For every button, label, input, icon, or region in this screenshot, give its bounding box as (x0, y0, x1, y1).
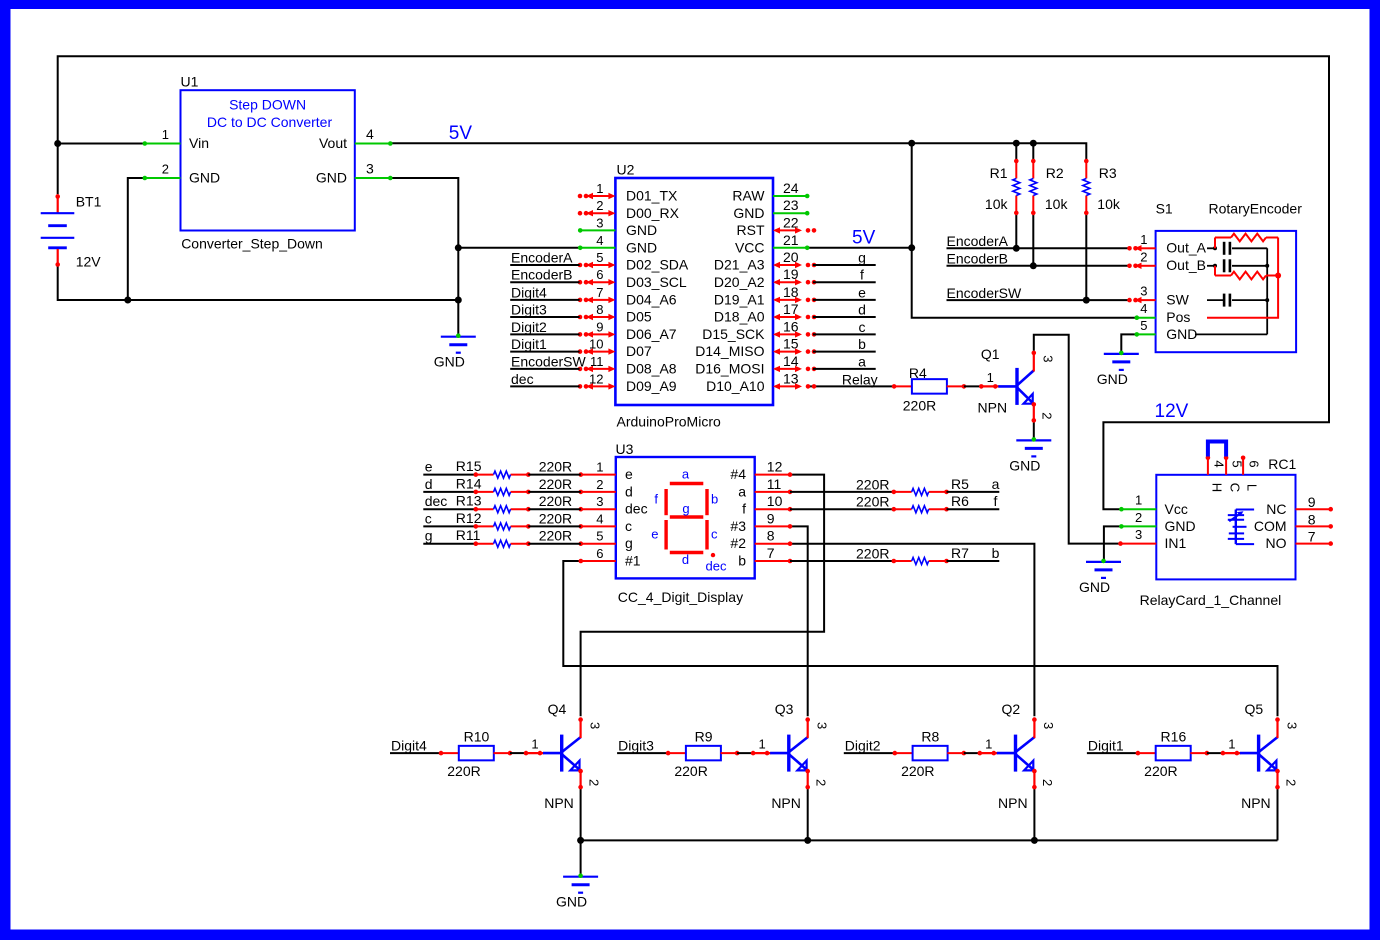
U2 pin 7 D04_A6 (588, 299, 613, 301)
svg-text:SW: SW (1166, 292, 1189, 308)
svg-text:5V: 5V (852, 228, 876, 249)
wire EncoderSW to S1 (947, 299, 1131, 301)
node U2 pin4 GND tap (455, 244, 462, 251)
svg-text:220R: 220R (539, 528, 572, 544)
net label f at U2 pin 19 (813, 281, 876, 283)
7-segment glyph segment f (664, 489, 667, 515)
svg-text:c: c (859, 319, 866, 335)
net label c at U2 pin 16 (813, 333, 876, 335)
svg-text:L: L (1245, 484, 1260, 491)
7-segment glyph segment g (670, 515, 704, 518)
net label d into R14 (423, 491, 476, 493)
svg-text:1: 1 (1135, 493, 1142, 508)
svg-text:BT1: BT1 (76, 194, 102, 210)
U2 pin 24 RAW (773, 195, 807, 197)
svg-text:5V: 5V (449, 123, 473, 144)
U2 pin 19 D20_A2 (775, 281, 800, 283)
ground under RC1 (1086, 561, 1121, 563)
svg-text:10: 10 (767, 493, 783, 509)
node R3-EncoderSW junction (1083, 297, 1090, 304)
U2 pin 3 GND (580, 229, 615, 231)
svg-text:NPN: NPN (771, 795, 801, 811)
svg-text:RelayCard_1_Channel: RelayCard_1_Channel (1140, 592, 1282, 608)
svg-text:VCC: VCC (735, 239, 765, 255)
svg-text:Relay: Relay (842, 371, 878, 387)
svg-text:9: 9 (596, 319, 603, 334)
svg-text:#2: #2 (730, 535, 746, 551)
U3 pin 5 g (581, 543, 616, 545)
U2 pin 1 D01_TX (588, 195, 613, 197)
7-segment glyph segment e (664, 520, 667, 550)
wire 5V from U1 Vout (390, 143, 1086, 159)
svg-text:Q5: Q5 (1245, 701, 1264, 717)
svg-text:c: c (711, 527, 718, 542)
RC1 pin 4 H (1207, 457, 1209, 475)
svg-text:Pos: Pos (1166, 309, 1190, 325)
svg-text:d: d (682, 552, 689, 567)
svg-text:GND: GND (189, 170, 220, 186)
wire R13 to U3 (528, 508, 581, 510)
battery BT1 (57, 194, 59, 213)
U2 pin 14 D16_MOSI (775, 368, 800, 370)
svg-text:R7: R7 (951, 545, 969, 561)
svg-text:3: 3 (1041, 355, 1056, 362)
wire emitter ground rail (581, 839, 1278, 841)
wire battery minus to ground rail (58, 266, 459, 300)
svg-text:GND: GND (434, 354, 465, 370)
S1 pin 3 SW (1141, 299, 1156, 301)
U1 pin 3 GND (355, 177, 391, 179)
svg-text:COM: COM (1254, 518, 1287, 534)
S1 internal pullup resistor on Out_B (1214, 266, 1216, 276)
svg-text:22: 22 (783, 214, 799, 230)
svg-text:Digit2: Digit2 (511, 319, 547, 335)
display U3 box (616, 457, 755, 578)
net label b after R7 (947, 560, 1000, 562)
svg-text:b: b (858, 336, 866, 352)
svg-text:2: 2 (814, 779, 829, 786)
S1 internal ground bus (1195, 333, 1267, 335)
svg-text:a: a (858, 353, 866, 369)
U2 pin 13 D10_A10 (775, 385, 800, 387)
svg-text:D02_SDA: D02_SDA (626, 257, 689, 273)
resistor R6 220R (894, 508, 912, 510)
svg-text:220R: 220R (539, 493, 572, 509)
svg-text:g: g (858, 250, 866, 266)
net label Digit3 at U2 pin 8 (510, 316, 579, 318)
svg-text:d: d (425, 476, 433, 492)
U1 pin 4 Vout (355, 143, 391, 145)
node R2 top (1030, 140, 1037, 147)
wire Q2 emitter drop (1033, 789, 1035, 841)
U2 pin 17 D18_A0 (775, 316, 800, 318)
svg-text:EncoderA: EncoderA (511, 250, 573, 266)
svg-text:220R: 220R (539, 476, 572, 492)
svg-text:D06_A7: D06_A7 (626, 326, 677, 342)
wire R1 bottom to EncoderA (1015, 214, 1017, 248)
RC1 pin 6 L (1242, 457, 1244, 475)
net label c into R12 (423, 525, 476, 527)
svg-text:#4: #4 (730, 466, 746, 482)
svg-text:EncoderA: EncoderA (947, 233, 1009, 249)
U3 pin 3 dec (581, 508, 616, 510)
svg-text:f: f (742, 501, 746, 517)
RC1 pin 9 NC (1296, 508, 1331, 510)
svg-text:4: 4 (596, 233, 603, 248)
wire display #3 to Q3 collector (790, 526, 808, 716)
svg-text:RotaryEncoder: RotaryEncoder (1209, 201, 1303, 217)
svg-text:IN1: IN1 (1165, 535, 1187, 551)
U2 pin 2 D00_RX (588, 212, 613, 214)
svg-text:EncoderSW: EncoderSW (947, 285, 1022, 301)
node GND rail junction at vertical (455, 297, 462, 304)
svg-text:D14_MISO: D14_MISO (695, 343, 764, 359)
svg-text:RAW: RAW (732, 188, 765, 204)
svg-text:1: 1 (596, 460, 603, 475)
svg-text:R13: R13 (456, 493, 482, 509)
svg-text:NC: NC (1266, 501, 1286, 517)
svg-text:2: 2 (586, 779, 601, 786)
svg-text:18: 18 (783, 284, 799, 300)
U2 pin 15 D14_MISO (775, 351, 800, 353)
svg-text:13: 13 (783, 370, 799, 386)
svg-text:220R: 220R (856, 476, 889, 492)
node GND rail junction at U1 pin2 drop (124, 297, 131, 304)
svg-text:3: 3 (1041, 722, 1056, 729)
net label Digit2 at U2 pin 9 (510, 333, 579, 335)
svg-text:3: 3 (1140, 284, 1147, 299)
svg-text:7: 7 (1308, 529, 1316, 545)
RC1 internal relay coil symbol (1236, 509, 1254, 511)
svg-text:R11: R11 (456, 527, 481, 543)
wire R1 top lead (1015, 143, 1017, 159)
svg-text:R3: R3 (1099, 165, 1117, 181)
svg-text:9: 9 (1308, 494, 1316, 510)
svg-text:b: b (711, 492, 718, 507)
resistor R1 10k (1015, 161, 1017, 178)
S1 internal capacitor on Out_B (1213, 264, 1217, 268)
wire Q4 emitter drop (580, 789, 582, 841)
arduino U2 box (615, 178, 773, 405)
S1 internal capacitor on SW (1207, 299, 1224, 301)
svg-text:d: d (625, 483, 633, 499)
7-segment glyph segment a (670, 482, 704, 485)
node R1-EncoderA junction (1013, 245, 1020, 252)
svg-text:b: b (992, 545, 1000, 561)
svg-text:3: 3 (587, 722, 602, 729)
wire U2 pin4 GND (458, 247, 580, 249)
wire display #2 to Q2 collector (790, 544, 1034, 717)
node R2-EncoderB junction (1030, 262, 1037, 269)
svg-text:1: 1 (162, 127, 169, 142)
svg-text:20: 20 (783, 249, 799, 265)
svg-text:3: 3 (815, 722, 830, 729)
svg-text:CC_4_Digit_Display: CC_4_Digit_Display (618, 589, 743, 605)
S1 pin 2 Out_B (1141, 265, 1156, 267)
svg-text:R10: R10 (464, 729, 490, 745)
svg-text:6: 6 (596, 267, 603, 282)
svg-text:dec: dec (425, 493, 448, 509)
ground under emitter rail (563, 876, 598, 878)
wire display #1 to Q5 collector (563, 561, 1277, 716)
U2 pin 21 VCC (773, 247, 807, 249)
resistor R16 220R (1136, 751, 1141, 756)
svg-text:220R: 220R (447, 763, 480, 779)
wire 12V top rail from battery to relay card (58, 56, 1329, 509)
svg-text:D07: D07 (626, 343, 652, 359)
svg-text:GND: GND (556, 894, 587, 910)
svg-text:DC to DC Converter: DC to DC Converter (207, 114, 333, 130)
wire U3 to R5 (790, 491, 894, 493)
svg-text:3: 3 (596, 494, 603, 509)
wire S1 GND pin to ground (1121, 334, 1137, 353)
svg-text:Digit1: Digit1 (511, 336, 547, 352)
RC1 pin 1 Vcc (1121, 508, 1156, 510)
wire RC1 GND pin to ground (1104, 526, 1122, 561)
svg-text:H: H (1209, 483, 1224, 492)
svg-text:D16_MOSI: D16_MOSI (695, 361, 764, 377)
RC1 pin 3 IN1 (1121, 543, 1157, 545)
svg-text:23: 23 (783, 197, 799, 213)
svg-text:Digit4: Digit4 (391, 738, 427, 754)
svg-text:NO: NO (1266, 535, 1287, 551)
svg-text:1: 1 (1140, 232, 1147, 247)
U2 pin 16 D15_SCK (775, 333, 800, 335)
svg-text:f: f (654, 492, 658, 507)
svg-text:Q3: Q3 (775, 701, 794, 717)
net label Digit4 (390, 752, 441, 754)
svg-text:6: 6 (596, 546, 603, 561)
net label dec at U2 pin 12 (510, 385, 579, 387)
svg-text:Vin: Vin (189, 135, 209, 151)
net label Digit4 at U2 pin 7 (510, 299, 579, 301)
resistor R15 220R (476, 474, 494, 476)
node R1 top (1013, 140, 1020, 147)
U3 pin 10 f (755, 508, 790, 510)
svg-text:1: 1 (1228, 737, 1235, 752)
U1 pin 2 GND (145, 177, 181, 179)
svg-text:8: 8 (596, 302, 603, 317)
svg-text:dec: dec (511, 371, 534, 387)
U2 pin 8 D05 (588, 316, 613, 318)
RC1 pin 2 GND (1121, 525, 1156, 527)
svg-text:Q1: Q1 (981, 346, 1000, 362)
svg-text:4: 4 (596, 511, 603, 526)
wire U1 pin3 GND right and down to ground symbol (390, 178, 458, 336)
wire Vin (58, 143, 145, 145)
svg-text:b: b (738, 552, 746, 568)
U3 pin 8 #2 (755, 543, 790, 545)
svg-text:5: 5 (596, 529, 603, 544)
U2 pin 9 D06_A7 (588, 333, 613, 335)
svg-text:D03_SCL: D03_SCL (626, 274, 687, 290)
svg-text:D09_A9: D09_A9 (626, 378, 677, 394)
svg-text:5: 5 (1140, 318, 1147, 333)
node battery plus to Vin junction (54, 140, 61, 147)
svg-text:C: C (1228, 483, 1243, 492)
svg-text:R1: R1 (990, 165, 1008, 181)
U2 pin 10 D07 (588, 351, 613, 353)
resistor R7 220R (894, 560, 912, 562)
net label a after R5 (947, 491, 1000, 493)
wire R2 bottom to EncoderB (1032, 214, 1034, 266)
svg-text:11: 11 (767, 476, 782, 492)
U2 pin 11 D08_A8 (588, 368, 613, 370)
svg-text:Step DOWN: Step DOWN (229, 97, 306, 113)
svg-text:16: 16 (783, 318, 799, 334)
svg-text:12: 12 (589, 371, 603, 386)
svg-text:19: 19 (783, 266, 799, 282)
svg-text:dec: dec (625, 501, 648, 517)
svg-text:Vout: Vout (319, 135, 347, 151)
svg-text:Digit3: Digit3 (511, 302, 547, 318)
S1 internal capacitor on Out_A (1213, 246, 1217, 250)
svg-text:D15_SCK: D15_SCK (702, 326, 765, 342)
node rail Q3 junction (804, 837, 811, 844)
svg-text:3: 3 (366, 161, 374, 177)
svg-text:220R: 220R (1144, 763, 1177, 779)
svg-text:R4: R4 (909, 365, 927, 381)
transistor Q2 NPN (1014, 735, 1017, 772)
svg-text:e: e (858, 284, 866, 300)
svg-text:dec: dec (706, 559, 727, 574)
wire R14 to U3 (528, 491, 581, 493)
svg-text:4: 4 (1140, 301, 1147, 316)
svg-text:4: 4 (1211, 460, 1226, 467)
node rail Q2 junction (1031, 837, 1038, 844)
svg-text:Digit2: Digit2 (845, 738, 881, 754)
svg-text:GND: GND (626, 222, 657, 238)
transistor Q1 NPN (1015, 368, 1018, 405)
converter U1 box (181, 90, 355, 230)
svg-text:g: g (625, 535, 633, 551)
svg-text:c: c (625, 518, 632, 534)
ground under Q1 (1016, 439, 1051, 441)
svg-text:NPN: NPN (544, 795, 574, 811)
U2 pin 5 D02_SDA (588, 264, 613, 266)
svg-text:U2: U2 (617, 162, 635, 178)
svg-text:a: a (738, 483, 746, 499)
svg-text:GND: GND (316, 170, 347, 186)
svg-text:12V: 12V (1155, 401, 1189, 422)
svg-text:1: 1 (596, 181, 603, 196)
ground under S1 (1104, 353, 1139, 355)
svg-text:7: 7 (767, 545, 775, 561)
svg-text:RC1: RC1 (1268, 456, 1296, 472)
svg-text:g: g (682, 501, 689, 516)
S1 internal pullup resistor on Out_A (1214, 238, 1216, 249)
U1 pin 1 Vin (145, 143, 181, 145)
svg-text:Out_A: Out_A (1166, 240, 1206, 256)
U2 pin 18 D19_A1 (775, 299, 800, 301)
svg-text:R8: R8 (921, 729, 939, 745)
resistor R10 220R (439, 751, 444, 756)
svg-text:2: 2 (1040, 412, 1055, 419)
svg-text:24: 24 (783, 180, 799, 196)
svg-text:R6: R6 (951, 493, 969, 509)
svg-text:7: 7 (596, 285, 603, 300)
svg-text:220R: 220R (901, 763, 934, 779)
svg-text:Converter_Step_Down: Converter_Step_Down (181, 236, 323, 252)
svg-text:10k: 10k (1097, 196, 1121, 212)
S1 pin 5 GND (1137, 333, 1156, 335)
wire Q5 emitter drop (1277, 789, 1279, 841)
svg-text:S1: S1 (1156, 201, 1173, 217)
resistor R12 220R (476, 525, 494, 527)
svg-text:3: 3 (1284, 722, 1299, 729)
svg-text:8: 8 (1308, 511, 1316, 527)
7-segment glyph segment c (705, 520, 708, 550)
svg-text:R12: R12 (456, 510, 482, 526)
svg-text:1: 1 (531, 737, 538, 752)
resistor R3 10k (1085, 161, 1087, 178)
net label e at U2 pin 18 (813, 299, 876, 301)
svg-text:GND: GND (1009, 457, 1040, 473)
svg-text:EncoderB: EncoderB (511, 267, 572, 283)
net label f after R6 (947, 508, 1000, 510)
7-segment decimal point (711, 553, 715, 557)
node 5V junction (908, 140, 915, 147)
jumper link on RC1 pins 4-5 (1208, 442, 1226, 457)
U3 pin 1 e (581, 474, 616, 476)
net label Digit1 (1087, 752, 1138, 754)
svg-text:15: 15 (783, 336, 799, 352)
svg-text:f: f (860, 267, 864, 283)
svg-text:14: 14 (783, 353, 799, 369)
svg-text:R5: R5 (951, 476, 969, 492)
svg-text:1: 1 (985, 737, 992, 752)
svg-text:10k: 10k (1045, 196, 1069, 212)
U2 pin 23 GND (773, 212, 807, 214)
svg-text:220R: 220R (539, 510, 572, 526)
wire R3 bottom to EncoderSW (1085, 214, 1087, 300)
svg-text:R9: R9 (695, 729, 713, 745)
svg-text:21: 21 (783, 232, 799, 248)
svg-text:2: 2 (1135, 510, 1142, 525)
svg-text:6: 6 (1247, 460, 1262, 467)
svg-text:220R: 220R (674, 763, 707, 779)
ground under U1 rail (441, 336, 476, 338)
svg-text:2: 2 (596, 198, 603, 213)
resistor R11 220R (476, 543, 494, 545)
svg-text:11: 11 (590, 354, 604, 369)
svg-text:f: f (994, 493, 998, 509)
S1 pin 4 Pos (1137, 317, 1156, 319)
svg-text:NPN: NPN (978, 400, 1008, 416)
svg-text:220R: 220R (903, 398, 936, 414)
U2 pin 6 D03_SCL (588, 281, 613, 283)
svg-text:D18_A0: D18_A0 (714, 309, 765, 325)
net label dec into R13 (423, 508, 476, 510)
svg-text:Digit1: Digit1 (1088, 738, 1124, 754)
RC1 pin 5 C (1225, 457, 1227, 475)
svg-text:U3: U3 (616, 441, 634, 457)
svg-text:Digit3: Digit3 (618, 738, 654, 754)
U2 pin 12 D09_A9 (588, 385, 613, 387)
wire R15 to U3 (528, 474, 581, 476)
svg-text:NPN: NPN (998, 795, 1028, 811)
wire U3 to R7 (790, 560, 894, 562)
wire display #4 to Q4 collector (581, 475, 825, 717)
resistor R2 10k (1032, 161, 1034, 178)
svg-text:5: 5 (596, 250, 603, 265)
svg-text:3: 3 (596, 215, 603, 230)
svg-text:e: e (651, 527, 658, 542)
wire U1 pin2 GND down to ground rail (128, 178, 145, 300)
wire Q1 collector to relay IN1 (1034, 335, 1121, 544)
svg-text:220R: 220R (539, 459, 572, 475)
svg-text:12V: 12V (76, 254, 102, 270)
